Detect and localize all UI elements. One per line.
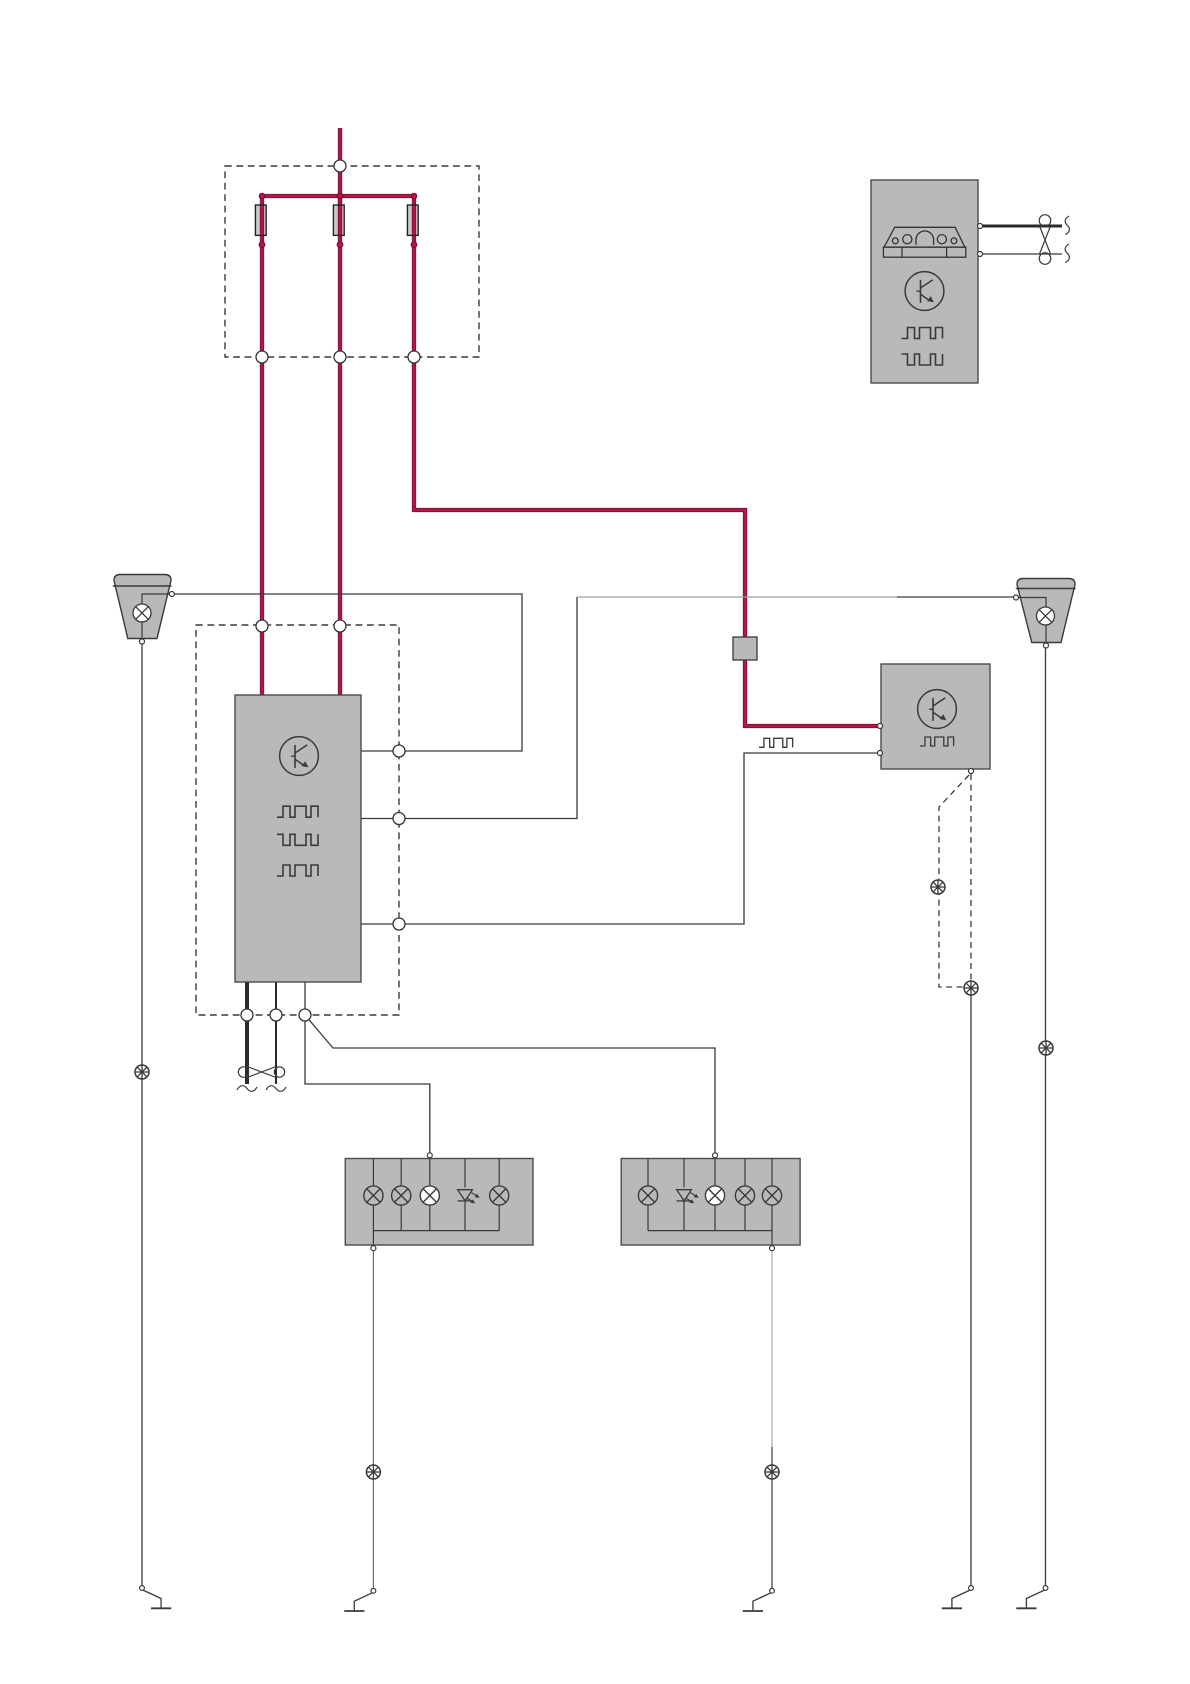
fuse F1 body <box>255 205 266 235</box>
wire module pin1 stub <box>361 750 399 752</box>
connector fuse box out 1 <box>256 351 268 363</box>
splice right lamp line <box>1039 1041 1053 1055</box>
lamp bulb LB5 <box>490 1186 509 1205</box>
wire right module to ground <box>970 995 972 1586</box>
ground G1 <box>140 1586 172 1609</box>
pin left lamp ground <box>140 639 145 644</box>
wire break squiggle CAN high <box>1065 216 1069 235</box>
splice left cluster line <box>366 1465 380 1479</box>
pin right lamp feed <box>1014 595 1019 600</box>
wire right cluster to ground gray <box>771 1250 773 1447</box>
wire right cluster to ground dark <box>771 1447 773 1589</box>
connector inline on red wire <box>733 637 757 660</box>
pin instrument cluster 1 <box>978 224 983 229</box>
wire module ground thin <box>275 982 277 1084</box>
junction dot bus right <box>411 193 417 199</box>
connector fuse box out 2 <box>334 351 346 363</box>
ground G5 <box>1016 1586 1048 1609</box>
pin right module power <box>878 724 883 729</box>
connector module box in 2 <box>334 620 346 632</box>
right rear lamp cluster <box>621 1159 800 1246</box>
lamp bulb RB4 <box>735 1186 754 1205</box>
central electrical unit dashed outline <box>196 625 399 1015</box>
fuse F1 outline <box>255 205 266 235</box>
lamp bulb LB3 active <box>420 1186 439 1205</box>
signal wave instrument cluster 1 <box>902 328 943 339</box>
lamp bulb LB1 <box>364 1186 383 1205</box>
right relay module <box>881 664 990 769</box>
wire supply feed red <box>338 128 342 204</box>
lamp bulb RB1 <box>638 1186 657 1205</box>
wire break squiggle CAN low <box>1065 244 1069 263</box>
splice right module line 2 <box>964 981 978 995</box>
wire red fuse1 to control module <box>260 196 264 695</box>
wire module pin3 stub <box>361 923 399 925</box>
wire module out to right lamp cluster <box>305 1015 715 1153</box>
wire right lamp feed gray segment <box>577 596 897 598</box>
twisted pair symbol module ground <box>238 1067 284 1078</box>
fuse F3 body <box>407 205 418 235</box>
pin right lamp ground <box>1044 643 1049 648</box>
connector module ground 2 <box>270 1009 282 1021</box>
wire red bus in fuse box <box>262 194 414 198</box>
wire break squiggle right <box>266 1086 286 1092</box>
connector module pin3 <box>393 918 405 930</box>
signal wave instrument cluster 2 <box>902 354 943 365</box>
pin right cluster ground <box>770 1246 775 1251</box>
left rear lamp cluster <box>345 1159 533 1246</box>
turn signal control module <box>235 695 361 982</box>
wire left lamp feed <box>173 594 522 751</box>
signal wave control module 3 <box>277 865 318 876</box>
wire CAN low thin <box>981 253 1062 255</box>
pin right module output <box>969 769 974 774</box>
ground G4 <box>942 1586 974 1609</box>
pin right cluster feed <box>713 1153 718 1158</box>
connector module pin1 <box>393 745 405 757</box>
signal wave control module 1 <box>277 806 318 817</box>
pin left lamp feed <box>169 592 174 597</box>
junction dot bus left <box>259 193 265 199</box>
wire right module dashed branch <box>939 775 969 987</box>
wire left lamp to ground <box>141 644 143 1586</box>
wire red fuse2 to control module <box>338 196 342 695</box>
fuse F1 output terminal <box>259 242 265 248</box>
signal wave right module <box>920 737 954 746</box>
transistor symbol control module <box>280 737 319 776</box>
signal wave control module 2 <box>277 834 318 845</box>
connector module ground 1 <box>241 1009 253 1021</box>
connector module pin2 <box>393 813 405 825</box>
pin right module signal <box>878 751 883 756</box>
pin left cluster feed <box>427 1153 432 1158</box>
wire CAN high thick <box>981 225 1062 228</box>
connector fuse box top <box>334 160 346 172</box>
transistor symbol instrument cluster <box>905 272 944 311</box>
fuse F3 output terminal <box>411 242 417 248</box>
lamp bulb RB3 active <box>705 1186 724 1205</box>
lamp bulb LB2 <box>392 1186 411 1205</box>
wire right module dashed down <box>970 774 972 981</box>
wire break squiggle left <box>237 1086 257 1092</box>
pin left cluster ground <box>371 1246 376 1251</box>
splice right module line 1 <box>931 880 945 894</box>
wire module ground thick <box>245 982 249 1084</box>
lamp bulb RB5 <box>762 1186 781 1205</box>
ground G3 <box>743 1588 775 1611</box>
wire module pin3 to right module <box>399 753 878 924</box>
LED left cluster <box>458 1190 480 1204</box>
wire right lamp feed dark segment <box>897 596 1014 598</box>
signal wave label on pin3 wire <box>759 738 793 747</box>
junction dot bus middle <box>337 193 343 199</box>
wire module pin2 to corner <box>399 597 577 819</box>
twisted pair symbol CAN <box>1039 215 1051 265</box>
connector module box in 1 <box>256 620 268 632</box>
wire right lamp to ground <box>1045 648 1047 1586</box>
left side turn lamp <box>113 575 172 642</box>
pin instrument cluster 2 <box>978 252 983 257</box>
wire red fuse3 to right module <box>414 196 878 726</box>
fuse F2 output terminal <box>337 242 343 248</box>
fuse box dashed outline <box>225 166 479 357</box>
connector fuse box out 3 <box>408 351 420 363</box>
transistor symbol right module <box>918 690 957 729</box>
LED right cluster <box>677 1190 699 1204</box>
fuse F3 outline <box>407 205 418 235</box>
ground G2 <box>344 1588 376 1611</box>
wire left cluster to ground <box>372 1250 374 1589</box>
instrument cluster unit box <box>871 180 978 383</box>
right side turn lamp <box>1016 579 1076 646</box>
connector module out 3 <box>299 1009 311 1021</box>
fuse F2 body <box>333 205 344 235</box>
splice right cluster line <box>765 1465 779 1479</box>
wire module out to left lamp cluster <box>305 982 430 1153</box>
fuse F2 outline <box>333 205 344 235</box>
instrument cluster icon <box>883 227 965 257</box>
wire module pin2 stub <box>361 818 399 820</box>
splice left lamp line <box>135 1065 149 1079</box>
